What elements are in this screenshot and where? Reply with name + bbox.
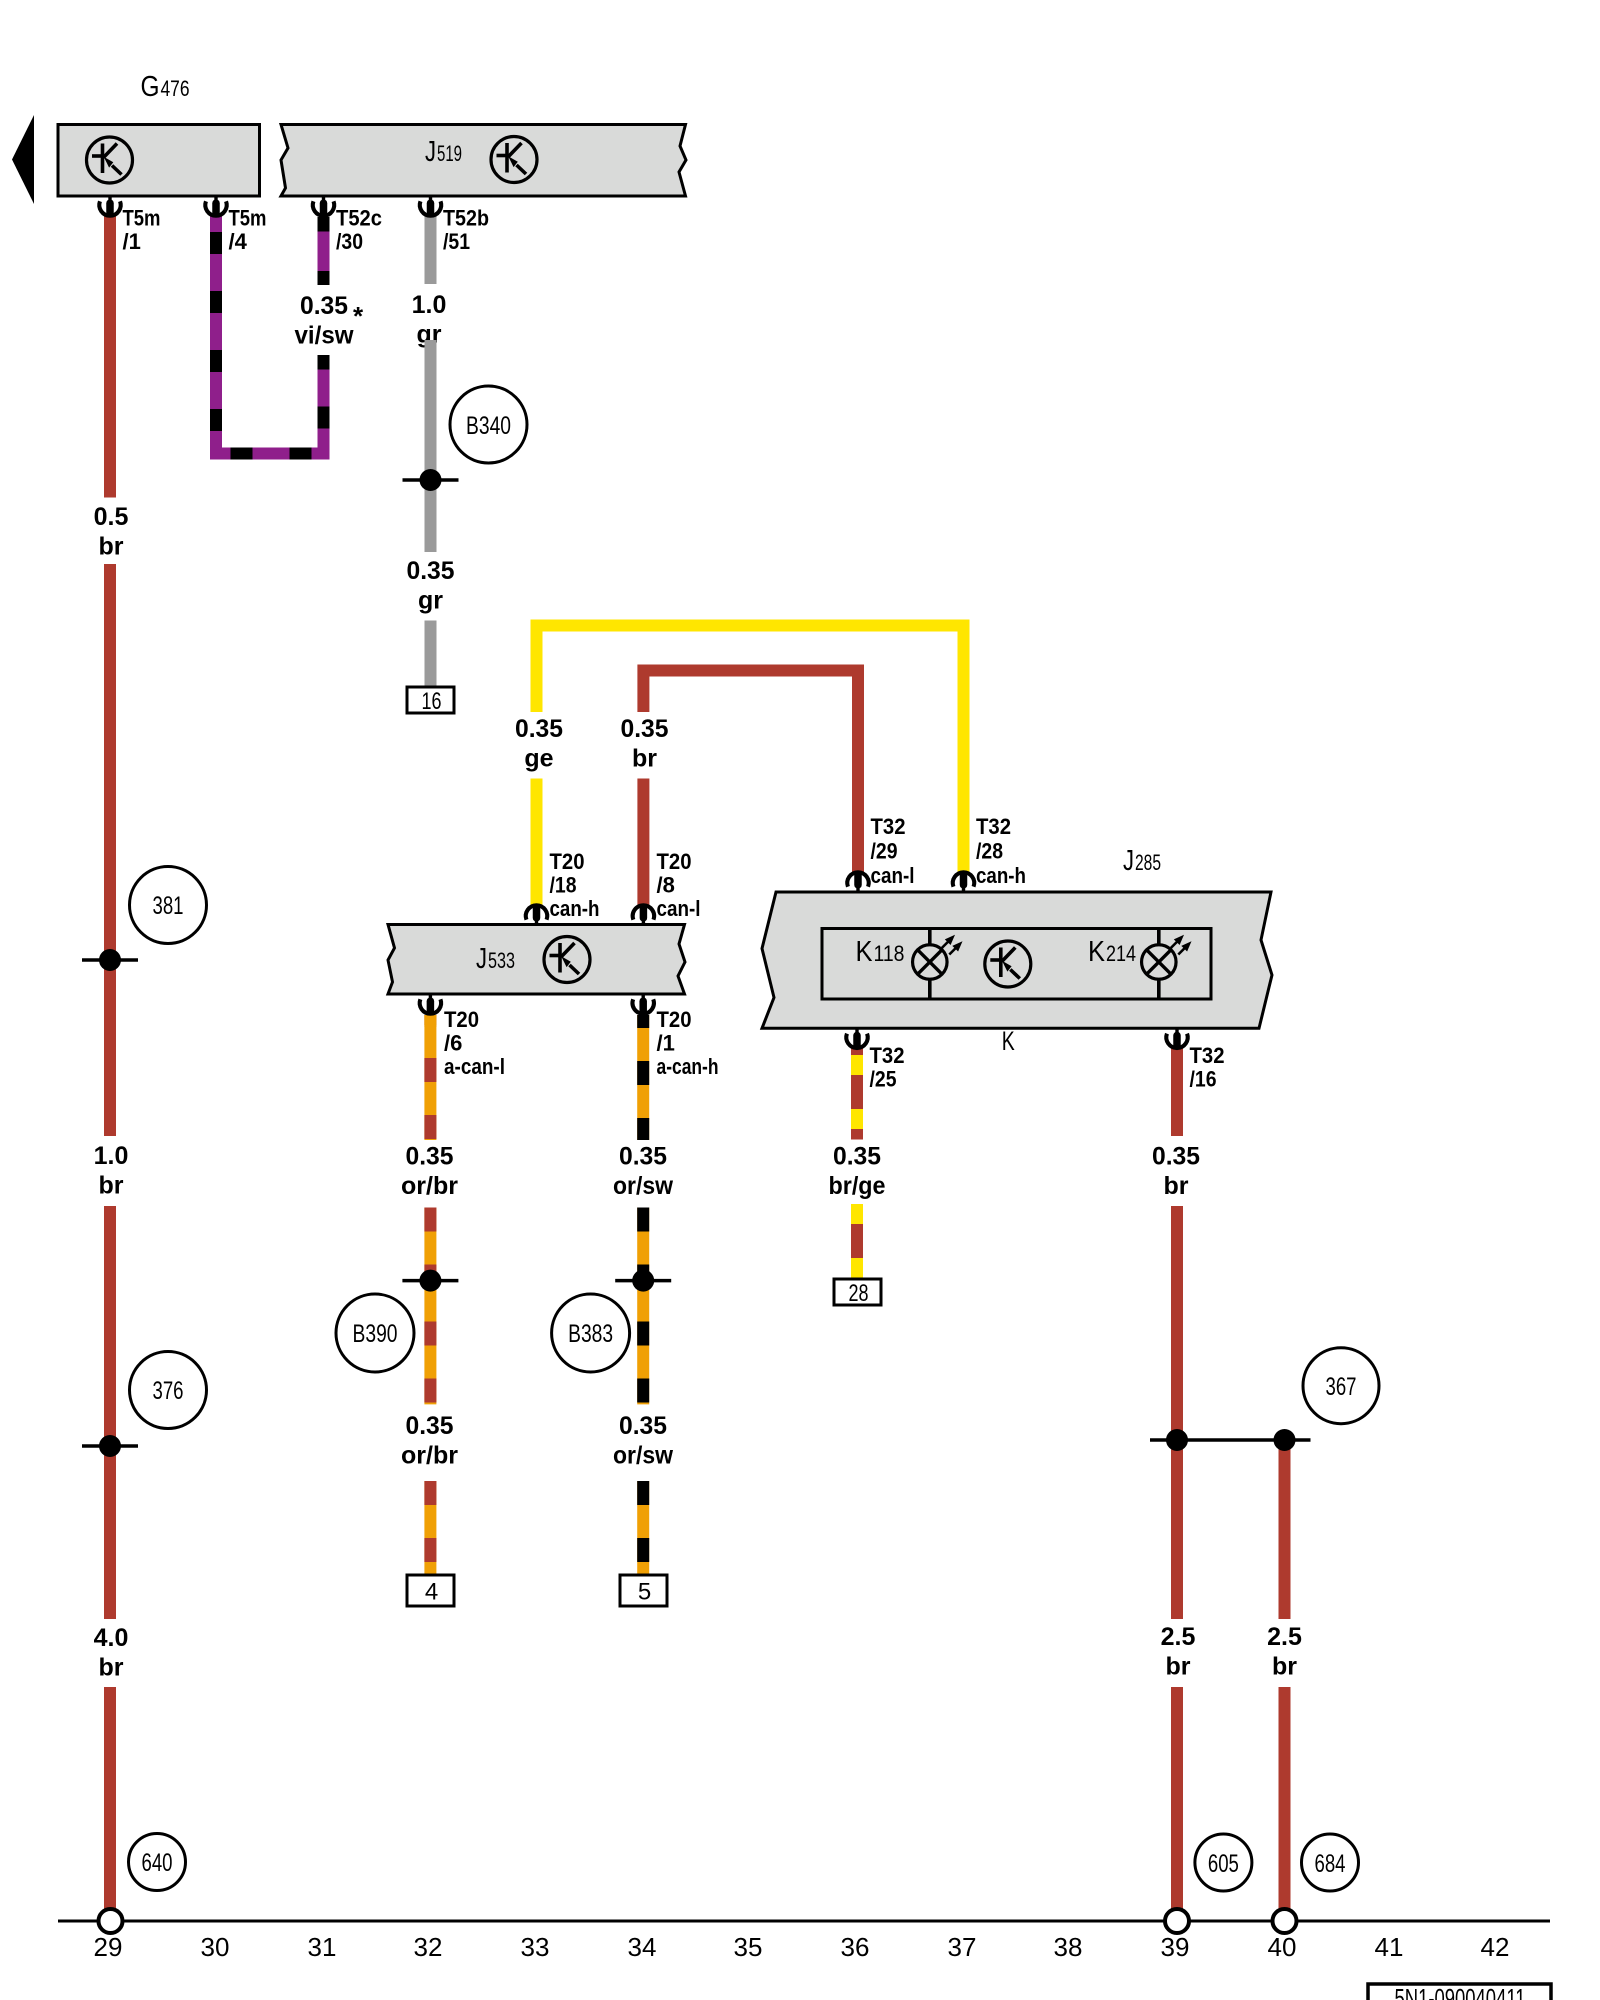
wire 0.35 or/br from T20/6 (section 1) — [424, 1015, 436, 1140]
svg-text:519: 519 — [437, 141, 462, 166]
ground label 605 — [1195, 1834, 1252, 1891]
label 0.35 ge — [515, 715, 563, 773]
wire 0.35 or/sw from T20/1 (section 1) — [637, 1015, 649, 1140]
svg-text:4: 4 — [425, 1579, 438, 1606]
svg-text:1.0: 1.0 — [94, 1142, 129, 1170]
svg-text:T32: T32 — [870, 1043, 905, 1068]
wire gr (section 2, through node B340) — [425, 340, 437, 552]
svg-text:can-l: can-l — [657, 896, 701, 921]
node label B340 — [450, 386, 527, 463]
label 0.35 gr — [407, 557, 455, 615]
connector pin T5m/1 — [99, 196, 120, 218]
label 0.35 vi/sw — [295, 292, 355, 350]
svg-text:376: 376 — [153, 1377, 184, 1405]
connector pin T5m/4 — [205, 196, 226, 218]
wire 1.0 gr from T52b/51 (section 1) — [425, 216, 437, 284]
svg-text:T32: T32 — [871, 814, 906, 839]
svg-text:367: 367 — [1326, 1373, 1357, 1401]
label 1.0 gr — [412, 291, 447, 349]
ground terminal circle at track 29 — [99, 1909, 123, 1933]
svg-text:can-h: can-h — [550, 896, 600, 921]
svg-text:33: 33 — [521, 1932, 550, 1962]
svg-text:36: 36 — [841, 1932, 870, 1962]
svg-text:2.5: 2.5 — [1267, 1623, 1302, 1651]
svg-text:/30: /30 — [336, 229, 363, 254]
continuation arrow (left page edge) — [12, 115, 34, 204]
wire 0.35 br/ge (section 2, to terminal 28) — [851, 1204, 863, 1282]
junction node on gr wire — [403, 469, 459, 491]
svg-text:T32: T32 — [1190, 1043, 1225, 1068]
control unit J519 (onboard supply control unit box) — [281, 125, 686, 197]
svg-text:/29: /29 — [871, 838, 898, 863]
svg-text:T52b: T52b — [443, 206, 489, 231]
svg-text:T20: T20 — [657, 1007, 692, 1032]
connector pin T52b/51 — [420, 196, 441, 218]
svg-text:214: 214 — [1106, 941, 1136, 966]
svg-text:0.35: 0.35 — [1152, 1143, 1200, 1171]
node label 381 — [130, 867, 207, 944]
svg-text:41: 41 — [1375, 1932, 1404, 1962]
svg-text:37: 37 — [948, 1932, 977, 1962]
ground label 640 — [129, 1834, 186, 1891]
junction node 376 on br wire — [82, 1435, 138, 1457]
svg-text:*: * — [353, 301, 364, 331]
svg-text:0.35: 0.35 — [833, 1143, 881, 1171]
svg-text:381: 381 — [153, 892, 184, 920]
ground terminal circle at track 40 — [1273, 1909, 1297, 1933]
svg-text:38: 38 — [1054, 1932, 1083, 1962]
svg-text:5: 5 — [638, 1579, 651, 1606]
connector pin T32/28 can-h — [953, 871, 974, 893]
ground terminal circle at track 39 — [1165, 1909, 1189, 1933]
svg-text:0.35: 0.35 — [407, 557, 455, 585]
wire 0.35 ge (can-h) from T20/18 to T32/28 — [537, 626, 964, 875]
svg-text:/4: /4 — [229, 229, 248, 254]
svg-text:K: K — [1002, 1026, 1015, 1056]
label 0.35 or/sw — [613, 1143, 674, 1201]
svg-text:K: K — [1088, 936, 1106, 968]
diagram number box 5N1-090040411 — [1368, 1983, 1551, 2000]
svg-text:/18: /18 — [550, 873, 577, 898]
svg-text:ge: ge — [524, 745, 553, 773]
svg-text:J: J — [425, 136, 436, 168]
svg-text:0.35: 0.35 — [515, 715, 563, 743]
terminal box 4 — [407, 1575, 454, 1606]
label K118 — [856, 936, 905, 968]
svg-text:B383: B383 — [568, 1320, 613, 1348]
svg-text:476: 476 — [161, 76, 190, 101]
connector pin T32/29 can-l — [847, 871, 868, 893]
svg-text:28: 28 — [849, 1280, 869, 1307]
wire 4.0 br (section 4, to ground terminal 29) — [104, 1687, 116, 1910]
node label B390 — [336, 1294, 414, 1372]
connector pin T20/18 can-h — [526, 904, 547, 926]
svg-text:br: br — [1164, 1172, 1189, 1200]
svg-text:T20: T20 — [444, 1007, 479, 1032]
label 0.35 or/br — [401, 1143, 458, 1201]
wire 2.5 br branch (node 367 to ground terminal 40) — [1279, 1440, 1291, 1619]
wire 0.5 br from T5m/1 (section 1) — [104, 216, 116, 498]
svg-text:31: 31 — [308, 1932, 337, 1962]
svg-text:T52c: T52c — [336, 206, 382, 231]
wire or/sw (section 2, through node B383) — [637, 1208, 649, 1405]
wire 2.5 br (section 3, to ground terminal 39) — [1171, 1687, 1183, 1910]
label 1.0 br — [94, 1142, 129, 1200]
svg-text:br: br — [1272, 1653, 1297, 1681]
wire or/sw (section 3, to terminal 5) — [637, 1481, 649, 1578]
track numbers 29-42 — [94, 1932, 1510, 1962]
svg-text:a-can-l: a-can-l — [444, 1054, 505, 1079]
svg-text:0.35: 0.35 — [619, 1412, 667, 1440]
svg-text:35: 35 — [734, 1932, 763, 1962]
svg-text:684: 684 — [1315, 1850, 1346, 1878]
svg-text:/28: /28 — [976, 838, 1003, 863]
svg-text:B390: B390 — [353, 1320, 398, 1348]
junction crossbar node 367 — [1150, 1438, 1311, 1442]
control unit J533 (data bus diagnostic interface box) — [388, 925, 685, 995]
wire or/br (section 3, to terminal 4) — [424, 1481, 436, 1578]
instrument symbol in J285 — [985, 941, 1031, 987]
svg-text:34: 34 — [628, 1932, 657, 1962]
svg-text:/8: /8 — [657, 873, 675, 898]
connector pin T32/25 — [846, 1028, 867, 1050]
svg-text:J: J — [1123, 845, 1134, 877]
svg-text:T20: T20 — [550, 849, 585, 874]
svg-text:B340: B340 — [466, 412, 511, 440]
label 0.35 br (can) — [621, 715, 669, 773]
svg-text:gr: gr — [418, 587, 443, 615]
label 4.0 br — [94, 1624, 129, 1682]
svg-text:/16: /16 — [1190, 1067, 1217, 1092]
wire 0.35 gr (section 3, to terminal 16) — [425, 621, 437, 691]
svg-text:br/ge: br/ge — [829, 1172, 886, 1200]
svg-text:1.0: 1.0 — [412, 291, 447, 319]
svg-text:4.0: 4.0 — [94, 1624, 129, 1652]
terminal box 16 — [407, 687, 454, 715]
ground rail (track line) — [58, 1920, 1550, 1923]
wire 2.5 br (section 2 of branch 40) — [1279, 1687, 1291, 1910]
inner function frame K — [822, 929, 1211, 1000]
wire or/br (section 2, through node B390) — [424, 1208, 436, 1405]
connector pin T20/1 a-can-h — [633, 994, 654, 1016]
label G476 — [141, 71, 190, 103]
wire 0.35 br from T32/16 (section 1) — [1171, 1047, 1183, 1136]
svg-text:39: 39 — [1161, 1932, 1190, 1962]
wire 0.35 vi/sw U-loop from T5m/4 to T52c/30 — [216, 216, 324, 454]
label 0.35 or/sw (lower) — [613, 1412, 674, 1470]
svg-text:J: J — [476, 943, 487, 975]
label 0.35 or/br (lower) — [401, 1412, 458, 1470]
svg-text:/1: /1 — [123, 229, 141, 254]
label 0.35 br (wire 39) — [1152, 1143, 1200, 1201]
connector pin T20/8 can-l — [633, 904, 654, 926]
control unit J285 (instrument cluster box) — [762, 892, 1272, 1028]
svg-text:br: br — [1166, 1653, 1191, 1681]
label J285 — [1123, 845, 1161, 877]
svg-text:or/sw: or/sw — [613, 1172, 674, 1200]
svg-text:vi/sw: vi/sw — [295, 322, 355, 350]
svg-text:K: K — [856, 936, 874, 968]
svg-text:533: 533 — [488, 948, 515, 973]
sensor G476 (control unit box) — [58, 125, 260, 197]
svg-text:or/sw: or/sw — [613, 1442, 674, 1470]
node label 376 — [130, 1352, 207, 1429]
svg-text:42: 42 — [1481, 1932, 1510, 1962]
svg-text:640: 640 — [142, 1849, 173, 1877]
svg-text:285: 285 — [1135, 850, 1161, 875]
wire 0.35 br/ge from T32/25 (section 1) — [851, 1047, 863, 1140]
svg-text:16: 16 — [422, 688, 442, 715]
junction node on or/br — [402, 1270, 458, 1292]
svg-text:32: 32 — [414, 1932, 443, 1962]
svg-text:0.35: 0.35 — [619, 1143, 667, 1171]
connector pin T52c/30 — [313, 196, 334, 218]
svg-text:T5m: T5m — [123, 206, 161, 231]
warning lamp K214 — [1142, 929, 1192, 1000]
wire 0.35 ge lower stub at T20/18 — [531, 779, 543, 907]
svg-text:0.35: 0.35 — [406, 1412, 454, 1440]
label J533 — [476, 943, 515, 975]
svg-text:/25: /25 — [870, 1067, 897, 1092]
terminal box 5 — [620, 1575, 667, 1606]
svg-text:T32: T32 — [976, 814, 1011, 839]
junction node on or/sw — [615, 1270, 671, 1292]
svg-text:can-l: can-l — [871, 863, 915, 888]
svg-text:G: G — [141, 71, 160, 103]
svg-text:br: br — [99, 533, 124, 561]
svg-text:29: 29 — [94, 1932, 123, 1962]
label J519 — [425, 136, 462, 168]
svg-text:605: 605 — [1208, 1850, 1239, 1878]
svg-text:40: 40 — [1268, 1932, 1297, 1962]
svg-text:can-h: can-h — [976, 863, 1026, 888]
svg-text:br: br — [632, 745, 657, 773]
connector pin T20/6 a-can-l — [420, 994, 441, 1016]
ground label 684 — [1302, 1834, 1359, 1891]
svg-text:0.35: 0.35 — [406, 1143, 454, 1171]
label K214 — [1088, 936, 1136, 968]
svg-text:T20: T20 — [657, 849, 692, 874]
svg-text:0.35: 0.35 — [621, 715, 669, 743]
connector pin T32/16 — [1166, 1028, 1187, 1050]
svg-text:/1: /1 — [657, 1030, 675, 1055]
wire 1.0/4.0 br (section 3, through node 376) — [104, 1206, 116, 1619]
svg-text:br: br — [99, 1172, 124, 1200]
svg-text:or/br: or/br — [401, 1172, 458, 1200]
node label 367 — [1303, 1348, 1379, 1424]
wire 0.35 br lower stub at T20/8 — [637, 779, 649, 907]
label 2.5 br (wire 39) — [1161, 1623, 1196, 1681]
wire 0.5/1.0 br (section 2, through node 381) — [104, 564, 116, 1136]
wire 0.35 br (can-l) from T20/8 to T32/29 — [643, 671, 858, 875]
svg-text:a-can-h: a-can-h — [657, 1054, 719, 1079]
svg-text:/6: /6 — [444, 1030, 462, 1055]
svg-text:5N1-090040411: 5N1-090040411 — [1395, 1983, 1526, 2000]
svg-text:0.5: 0.5 — [94, 503, 129, 531]
svg-text:br: br — [99, 1654, 124, 1682]
svg-text:/51: /51 — [443, 229, 470, 254]
label 0.5 br — [94, 503, 129, 561]
label 0.35 br/ge — [829, 1143, 886, 1201]
wire br (section 2, to node 367) — [1171, 1206, 1183, 1619]
wire 0.35 vi/sw upper stub at T52c/30 — [318, 217, 330, 285]
svg-text:30: 30 — [201, 1932, 230, 1962]
svg-text:0.35: 0.35 — [300, 292, 348, 320]
node label B383 — [552, 1294, 630, 1372]
junction node 381 on br wire — [82, 949, 138, 971]
svg-text:or/br: or/br — [401, 1442, 458, 1470]
svg-text:2.5: 2.5 — [1161, 1623, 1196, 1651]
terminal box 28 — [834, 1279, 881, 1307]
svg-text:T5m: T5m — [229, 206, 267, 231]
svg-text:118: 118 — [874, 941, 905, 966]
warning lamp K118 — [913, 929, 963, 1000]
